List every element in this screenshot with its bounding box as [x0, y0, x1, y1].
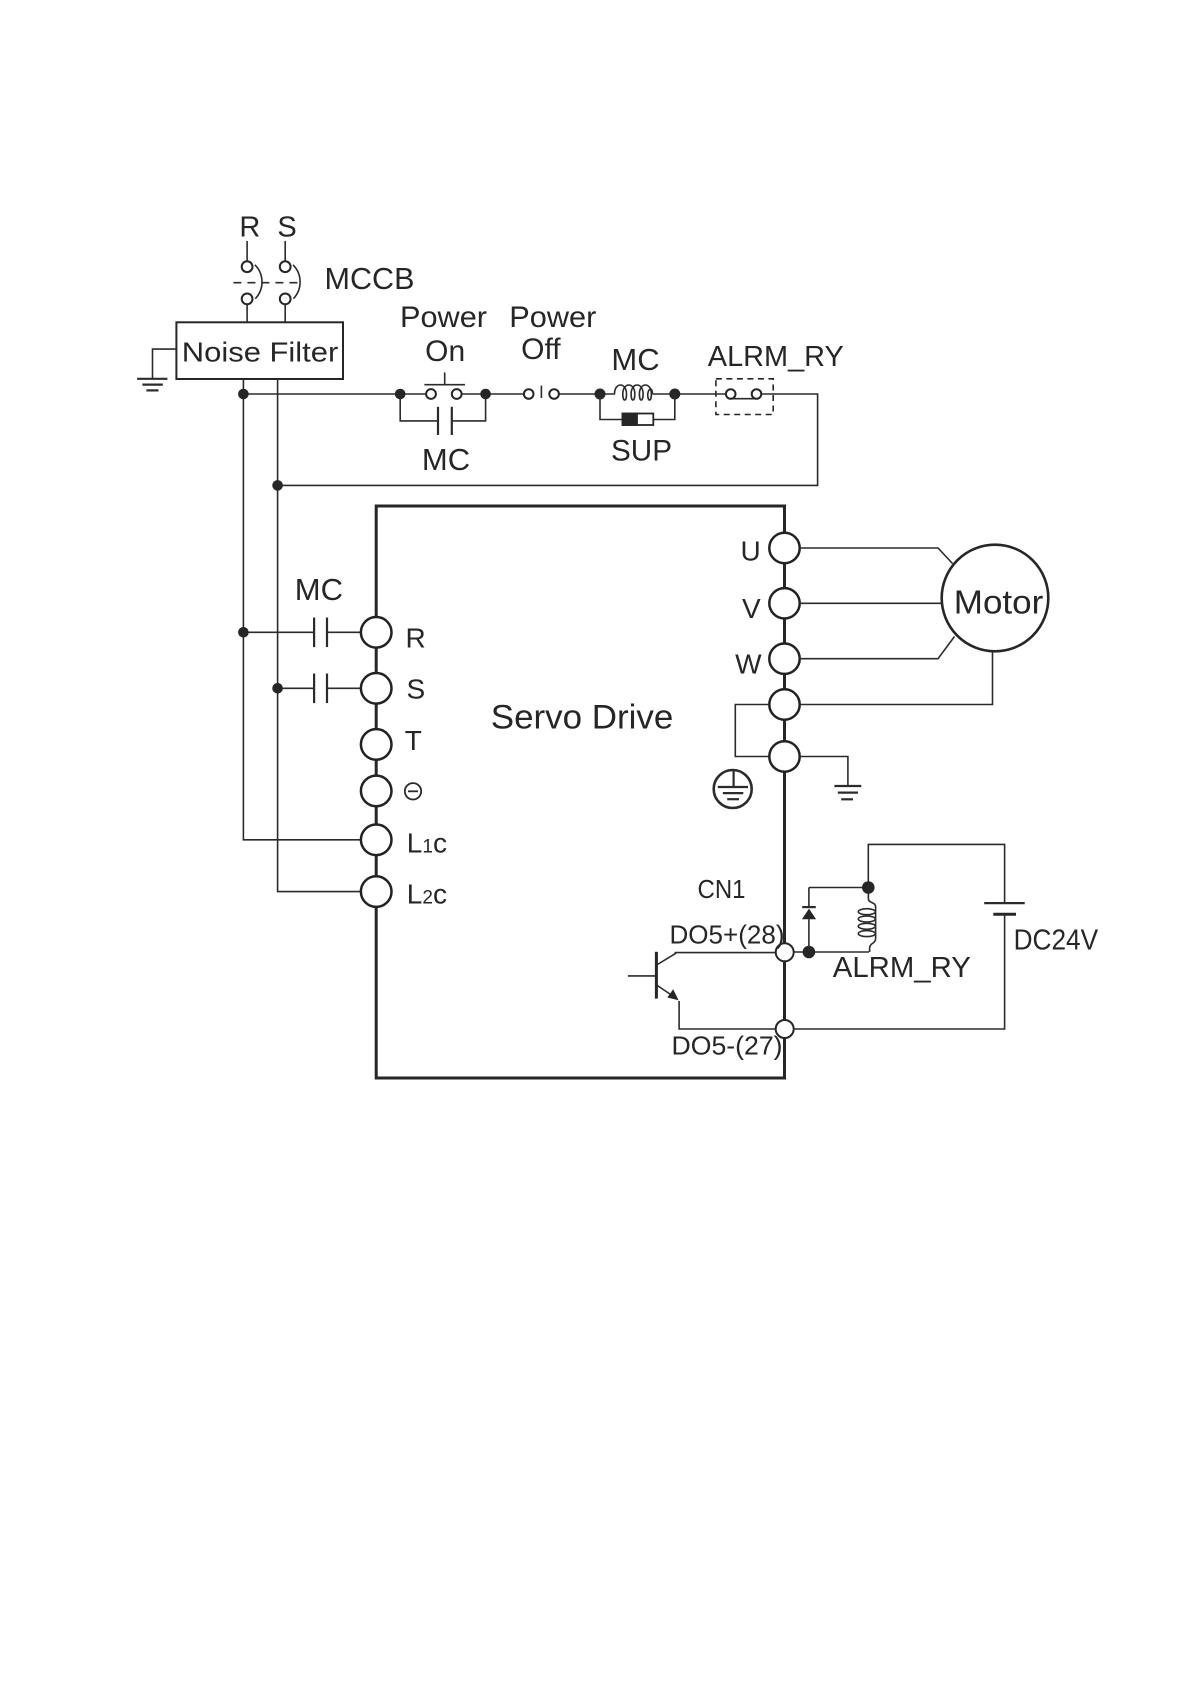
wire PE2 to ground [800, 757, 848, 787]
wire DO5+ to relay coil branch [794, 951, 869, 953]
svg-text:R: R [406, 623, 426, 654]
wire power-on right segment [462, 393, 524, 395]
junction dot R branch [238, 627, 249, 638]
motor M1 [942, 545, 1049, 652]
svg-text:SUP: SUP [611, 435, 672, 468]
junction dot S branch [272, 683, 283, 694]
terminal PE1 [769, 689, 799, 719]
svg-text:Motor: Motor [954, 583, 1044, 620]
ground (motor frame earth) [834, 786, 861, 799]
junction dot diode anode [803, 946, 816, 959]
pushbutton Power On (NO) [424, 372, 465, 399]
wire ALRM_RY to return rail [278, 394, 818, 485]
terminal L1C [361, 825, 392, 856]
wire S lead into breaker [284, 241, 286, 261]
wire emitter to DO5- [679, 1001, 776, 1029]
svg-text:CN1: CN1 [698, 874, 746, 904]
wire R lead into breaker [246, 241, 248, 261]
terminal PE2 [769, 741, 799, 771]
wire breaker S to noise filter [284, 304, 286, 322]
terminal T [361, 729, 392, 760]
junction dot rail at noise filter output [238, 389, 249, 400]
wire noise filter output 1 (to main rail and L1C) [243, 379, 361, 840]
svg-text:U: U [741, 535, 761, 566]
junction dot MC coil right [669, 389, 680, 400]
svg-text:DC24V: DC24V [1014, 925, 1099, 957]
noise filter box [176, 322, 343, 379]
breaker MCCB pole R [242, 261, 262, 304]
terminal minus [361, 776, 392, 807]
svg-text:DO5-(27): DO5-(27) [672, 1031, 783, 1061]
svg-text:Power: Power [509, 301, 596, 334]
svg-text:W: W [735, 648, 762, 679]
transistor Q1 (open collector output DO5) [628, 952, 679, 1000]
wire power-off to MC coil [559, 393, 615, 395]
svg-text:V: V [742, 593, 761, 624]
contact MC (parallel to Power On) [400, 394, 485, 435]
wire MC coil right to ALRM_RY contact [653, 393, 726, 395]
terminal U [769, 533, 799, 563]
svg-text:Noise Filter: Noise Filter [182, 336, 338, 367]
terminal W [769, 644, 799, 674]
wire battery minus to DO5- [794, 914, 1005, 1029]
battery DC24V [984, 903, 1024, 914]
pin DO5+(28) [776, 943, 794, 961]
terminal V [769, 588, 799, 618]
svg-text:Off: Off [521, 333, 561, 366]
pushbutton Power Off (NC) [524, 386, 559, 399]
wire motor ground return to PE1 [800, 651, 993, 704]
junction dot power-on right [480, 389, 491, 400]
servo drive box [376, 506, 784, 1078]
svg-text:S: S [277, 212, 296, 244]
junction dot return rail to L2C branch [272, 480, 283, 491]
svg-text:ALRM_RY: ALRM_RY [833, 952, 971, 984]
breaker MCCB pole S [280, 261, 300, 304]
wire noise filter output 2 (to return rail and L2C) [278, 379, 361, 892]
breaker linkage dashed line [233, 282, 301, 284]
svg-text:Power: Power [400, 301, 487, 334]
wire V to motor [800, 602, 942, 604]
svg-text:MC: MC [295, 572, 343, 607]
relay coil ALRM_RY [858, 888, 875, 953]
terminal S [361, 673, 392, 704]
wire noise filter to earth [153, 349, 177, 378]
wire control rail top [243, 393, 426, 395]
svg-text:MC: MC [611, 342, 659, 377]
svg-text:MCCB: MCCB [325, 261, 415, 296]
svg-text:DO5+(28): DO5+(28) [670, 920, 785, 950]
wire PE1 to PE2 link [735, 705, 769, 757]
junction dot coil top [862, 881, 875, 894]
wire collector to DO5+ [675, 952, 776, 954]
terminal L2C [361, 876, 392, 907]
svg-text:MC: MC [422, 442, 470, 477]
svg-text:On: On [425, 335, 465, 368]
svg-text:R: R [239, 212, 260, 244]
relay contact ALRM_RY (dashed box) [716, 379, 773, 415]
contact MC (R phase) [243, 618, 361, 648]
svg-text:Servo Drive: Servo Drive [491, 699, 674, 737]
wire U to motor [800, 548, 953, 564]
junction dot MC coil left [595, 389, 606, 400]
surge suppressor SUP (parallel to coil) [600, 394, 675, 425]
symbol minus (circled) [405, 783, 421, 799]
coil MC (contactor coil) [615, 385, 653, 400]
wire breaker R to noise filter [246, 304, 248, 322]
junction dot power-on left [395, 389, 406, 400]
terminal R [361, 617, 392, 648]
wire coil top to battery plus [868, 844, 1004, 903]
svg-text:ALRM_RY: ALRM_RY [708, 341, 844, 373]
pin DO5-(27) [776, 1020, 794, 1038]
ground (noise filter earth) [137, 379, 167, 391]
diode D1 (flyback) [802, 888, 816, 953]
wire W to motor [800, 637, 955, 659]
svg-text:S: S [407, 673, 426, 704]
contact MC (S phase) [278, 674, 361, 704]
wire diode top to coil top [809, 887, 868, 889]
protective earth symbol (circled ground) [714, 770, 752, 808]
svg-text:T: T [405, 725, 422, 756]
